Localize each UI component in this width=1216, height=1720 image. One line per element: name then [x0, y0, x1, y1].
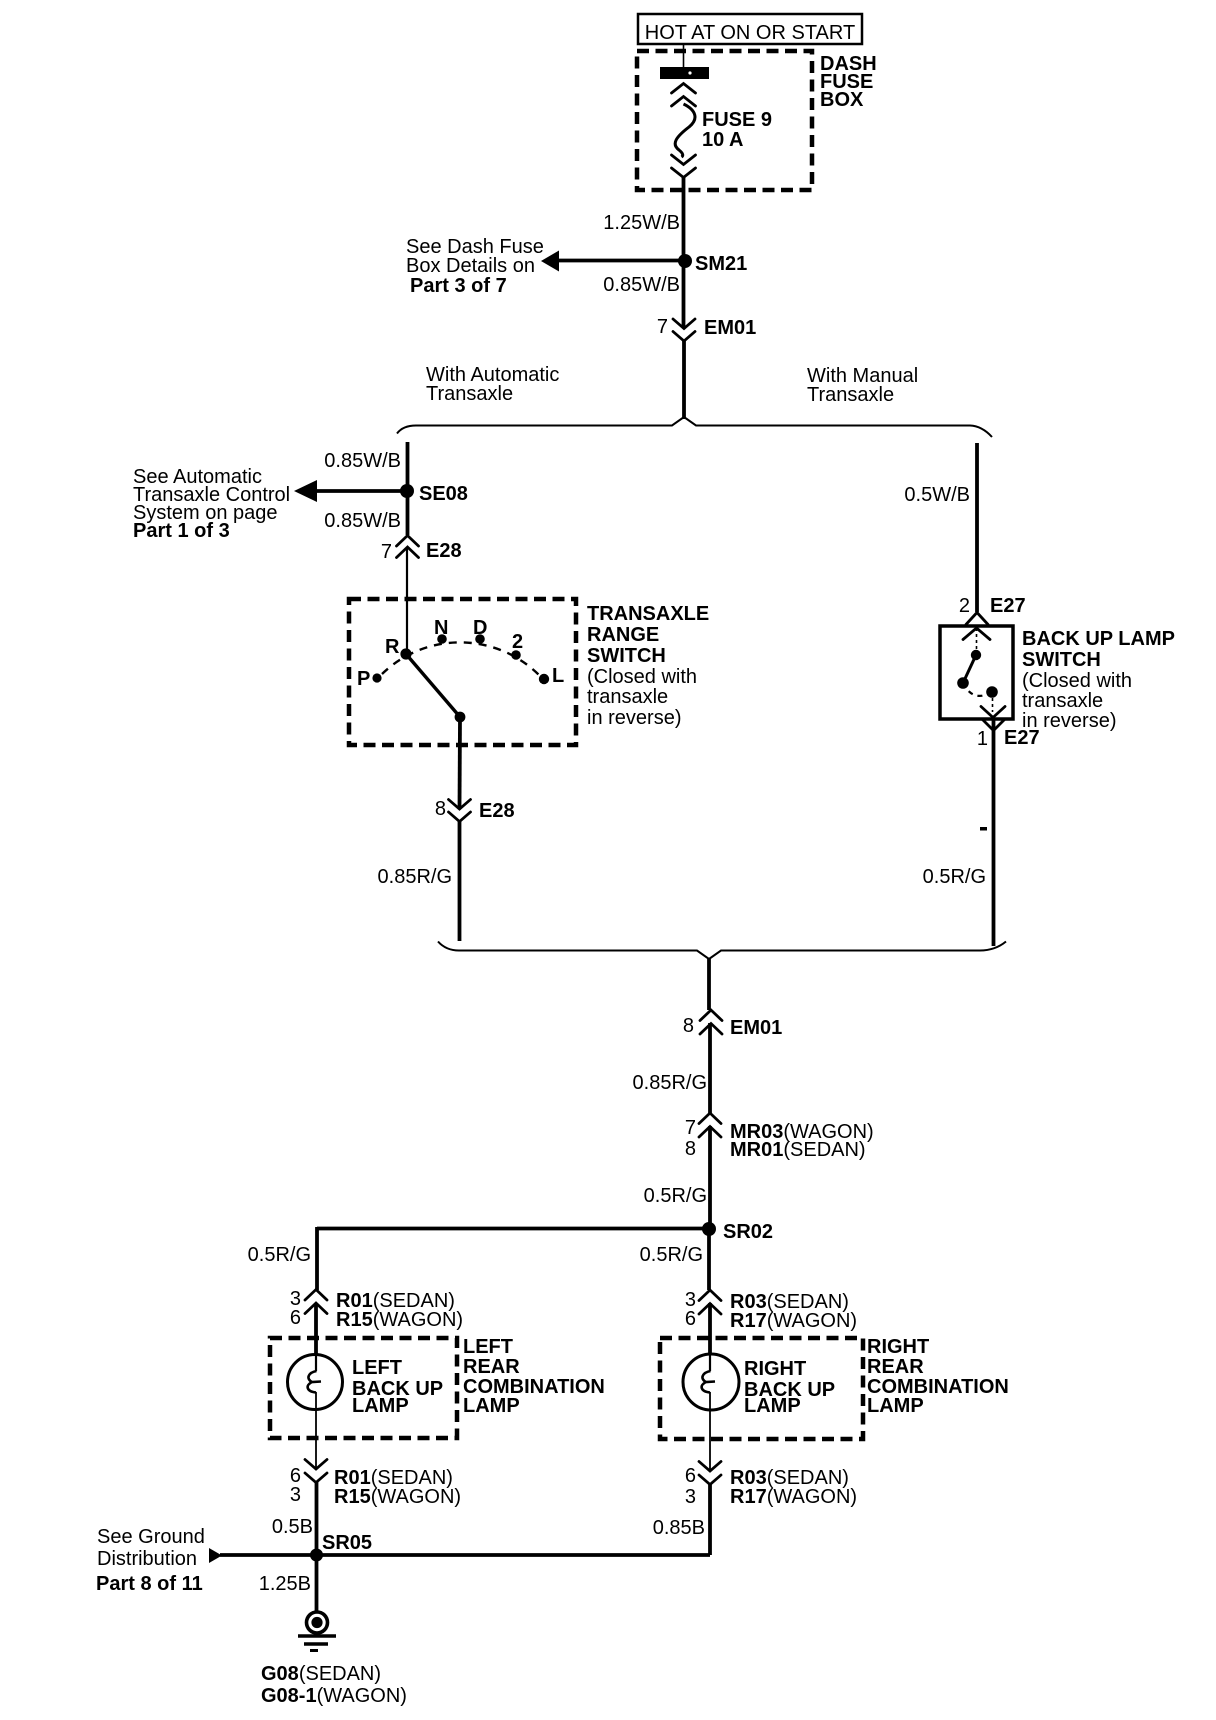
- svg-text:SR05: SR05: [322, 1532, 372, 1554]
- svg-text:0.5R/G: 0.5R/G: [644, 1185, 707, 1207]
- svg-text:LEFT: LEFT: [463, 1336, 513, 1358]
- svg-text:0.85W/B: 0.85W/B: [324, 450, 401, 472]
- svg-text:1: 1: [977, 728, 988, 750]
- svg-text:EM01: EM01: [730, 1017, 782, 1039]
- svg-text:(Closed with: (Closed with: [1022, 670, 1132, 692]
- svg-text:Box Details on: Box Details on: [406, 255, 535, 277]
- svg-text:Transaxle: Transaxle: [807, 384, 894, 406]
- svg-text:E27: E27: [990, 595, 1026, 617]
- svg-text:3: 3: [290, 1484, 301, 1506]
- svg-text:3: 3: [685, 1486, 696, 1508]
- svg-text:MR01(SEDAN): MR01(SEDAN): [730, 1139, 866, 1161]
- svg-text:D: D: [473, 617, 487, 639]
- svg-text:FUSE 9: FUSE 9: [702, 109, 772, 131]
- svg-text:0.85B: 0.85B: [653, 1517, 705, 1539]
- svg-text:LEFT: LEFT: [352, 1357, 402, 1379]
- svg-text:SWITCH: SWITCH: [587, 645, 666, 667]
- svg-text:1.25W/B: 1.25W/B: [603, 212, 680, 234]
- svg-text:TRANSAXLE: TRANSAXLE: [587, 603, 709, 625]
- svg-text:Distribution: Distribution: [97, 1548, 197, 1570]
- svg-text:LAMP: LAMP: [352, 1395, 409, 1417]
- svg-text:REAR: REAR: [867, 1356, 924, 1378]
- svg-text:10 A: 10 A: [702, 129, 744, 151]
- svg-text:SE08: SE08: [419, 483, 468, 505]
- svg-text:0.85W/B: 0.85W/B: [324, 510, 401, 532]
- svg-text:P: P: [357, 668, 370, 690]
- svg-text:6: 6: [685, 1308, 696, 1330]
- svg-text:REAR: REAR: [463, 1356, 520, 1378]
- svg-text:E28: E28: [426, 540, 462, 562]
- svg-text:7: 7: [657, 316, 668, 338]
- svg-text:LAMP: LAMP: [867, 1395, 924, 1417]
- svg-text:7: 7: [381, 541, 392, 563]
- svg-text:Part 3 of 7: Part 3 of 7: [410, 275, 507, 297]
- svg-text:See Ground: See Ground: [97, 1526, 205, 1548]
- svg-text:E27: E27: [1004, 727, 1040, 749]
- svg-text:2: 2: [512, 631, 523, 653]
- svg-text:R15(WAGON): R15(WAGON): [336, 1309, 463, 1331]
- svg-text:0.5W/B: 0.5W/B: [904, 484, 970, 506]
- svg-text:8: 8: [685, 1138, 696, 1160]
- svg-text:Part 1 of 3: Part 1 of 3: [133, 520, 230, 542]
- svg-text:R15(WAGON): R15(WAGON): [334, 1486, 461, 1508]
- svg-text:Transaxle: Transaxle: [426, 383, 513, 405]
- svg-text:E28: E28: [479, 800, 515, 822]
- svg-text:RIGHT: RIGHT: [744, 1358, 806, 1380]
- svg-text:RANGE: RANGE: [587, 624, 659, 646]
- svg-text:L: L: [552, 665, 564, 687]
- svg-text:0.85R/G: 0.85R/G: [633, 1072, 707, 1094]
- svg-text:RIGHT: RIGHT: [867, 1336, 929, 1358]
- svg-text:Part 8 of 11: Part 8 of 11: [96, 1573, 203, 1595]
- svg-text:SM21: SM21: [695, 253, 747, 275]
- svg-text:LAMP: LAMP: [463, 1395, 520, 1417]
- svg-text:1.25B: 1.25B: [259, 1573, 311, 1595]
- svg-text:0.5R/G: 0.5R/G: [923, 866, 986, 888]
- svg-text:LAMP: LAMP: [744, 1395, 801, 1417]
- svg-text:6: 6: [685, 1465, 696, 1487]
- svg-text:in reverse): in reverse): [587, 707, 681, 729]
- svg-text:0.5R/G: 0.5R/G: [248, 1244, 311, 1266]
- svg-text:transaxle: transaxle: [1022, 690, 1103, 712]
- svg-text:2: 2: [959, 595, 970, 617]
- svg-text:R: R: [385, 636, 400, 658]
- svg-text:SWITCH: SWITCH: [1022, 649, 1101, 671]
- svg-text:N: N: [434, 617, 448, 639]
- svg-text:EM01: EM01: [704, 317, 756, 339]
- svg-text:BOX: BOX: [820, 89, 864, 111]
- svg-text:0.85R/G: 0.85R/G: [378, 866, 452, 888]
- svg-text:0.85W/B: 0.85W/B: [603, 274, 680, 296]
- svg-text:0.5B: 0.5B: [272, 1516, 313, 1538]
- svg-text:8: 8: [683, 1015, 694, 1037]
- svg-text:HOT AT ON OR START: HOT AT ON OR START: [645, 22, 855, 44]
- svg-text:G08-1(WAGON): G08-1(WAGON): [261, 1685, 407, 1707]
- svg-text:transaxle: transaxle: [587, 686, 668, 708]
- svg-text:(Closed with: (Closed with: [587, 666, 697, 688]
- svg-text:6: 6: [290, 1307, 301, 1329]
- svg-text:R17(WAGON): R17(WAGON): [730, 1486, 857, 1508]
- svg-text:BACK UP LAMP: BACK UP LAMP: [1022, 628, 1175, 650]
- svg-text:R17(WAGON): R17(WAGON): [730, 1310, 857, 1332]
- svg-text:0.5R/G: 0.5R/G: [640, 1244, 703, 1266]
- svg-text:8: 8: [435, 798, 446, 820]
- svg-text:G08(SEDAN): G08(SEDAN): [261, 1663, 381, 1685]
- svg-text:SR02: SR02: [723, 1221, 773, 1243]
- svg-text:7: 7: [685, 1117, 696, 1139]
